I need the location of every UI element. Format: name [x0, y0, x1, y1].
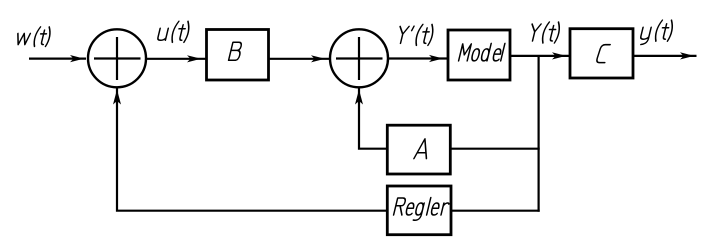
block text Model	[459, 43, 505, 61]
block letter B	[229, 42, 243, 60]
wire S1 to block B	[147, 58, 207, 60]
block A	[387, 125, 450, 174]
arrowhead into block C	[552, 52, 566, 59]
arrowhead into summing junction S1	[70, 55, 84, 62]
block B	[207, 30, 269, 81]
wire block Regler input from riser to S1	[117, 88, 387, 211]
wire block Model to block C with takeoff node Y(t)	[510, 55, 570, 57]
arrowhead into block Model	[429, 55, 443, 62]
wire block A input from riser to S2	[359, 88, 387, 149]
wire input w(t) to summing junction S1	[29, 57, 86, 59]
arrowhead into S1 from below	[113, 90, 121, 105]
block text Regler	[394, 198, 450, 221]
summing junction S2	[330, 29, 388, 87]
block Regler	[387, 186, 451, 235]
block letter A	[414, 139, 431, 159]
summing junction S1	[88, 29, 146, 87]
wire block B to summing junction S2	[269, 58, 330, 60]
wire block Regler output to feedback vertical	[451, 210, 540, 212]
signal label y(t)	[639, 20, 674, 44]
arrowhead into summing junction S2	[311, 55, 325, 62]
arrowhead into S2 from below	[355, 90, 363, 105]
arrowhead into block B	[187, 55, 201, 62]
arrowhead output y(t)	[680, 52, 694, 59]
signal label w(t)	[15, 27, 52, 47]
block letter C	[596, 45, 610, 63]
wire block C to output y(t)	[633, 55, 697, 57]
signal label Y'(t)	[396, 24, 435, 45]
wire feedback takeoff vertical from node Y(t)	[537, 56, 539, 212]
wire S2 to block Model	[388, 57, 448, 59]
signal label u(t)	[157, 21, 191, 42]
block Model	[448, 30, 510, 80]
block C	[570, 29, 633, 78]
wire block A output to feedback vertical	[451, 148, 540, 150]
signal label Y(t)	[528, 22, 561, 43]
